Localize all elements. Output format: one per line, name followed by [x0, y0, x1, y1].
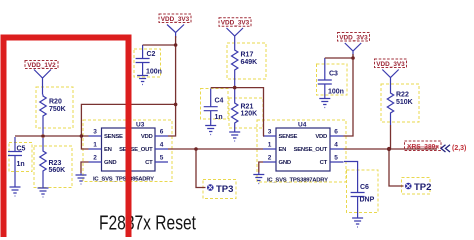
wire: U3 SENSE_OUT to U4 EN	[168, 148, 263, 150]
highlight box U3	[83, 120, 172, 182]
ground (C5)	[10, 185, 21, 196]
svg-text:4: 4	[334, 142, 338, 149]
svg-text:CT: CT	[145, 160, 153, 166]
wire: U4 SENSE_OUT output net	[344, 148, 438, 150]
highlight box U4	[257, 120, 346, 182]
resistor R17 649K	[232, 48, 258, 87]
resistor R23 560K	[40, 138, 65, 185]
highlight box R22	[381, 84, 419, 122]
op-amp/supervisor IC U4 TPS3897	[263, 122, 344, 184]
junction: R20/R23/C5 divider node	[41, 134, 45, 138]
wire: U3 GND pin to ground	[81, 162, 89, 173]
wire: VDD_3V3 rail down to U3 VDD pin 6	[168, 36, 176, 136]
svg-text:6: 6	[334, 129, 338, 136]
junction: R17/R21/C4 node	[233, 86, 237, 90]
svg-text:C6: C6	[360, 184, 369, 191]
svg-text:VDD_3V3: VDD_3V3	[376, 61, 405, 68]
svg-text:GND: GND	[279, 160, 291, 166]
ground (U3 GND)	[76, 173, 87, 184]
wire: drop to TP2	[389, 149, 404, 186]
svg-text:2: 2	[268, 155, 272, 162]
svg-text:4: 4	[160, 142, 164, 149]
highlight box R21	[229, 98, 263, 128]
junction: C2 on VDD rail	[174, 43, 178, 47]
highlight box R17	[227, 43, 266, 79]
svg-text:SENSE: SENSE	[104, 134, 123, 140]
svg-text:SENSE_OUT: SENSE_OUT	[119, 147, 153, 153]
wire: R17/R21 node to C4 branch	[211, 87, 235, 89]
highlight box C4	[201, 89, 229, 120]
svg-text:VDD_1V2: VDD_1V2	[27, 62, 56, 69]
junction: R22/TP2 tap on output net	[387, 147, 391, 151]
power port VDD_3V3 (above R17)	[219, 18, 251, 48]
svg-text:SENSE_OUT: SENSE_OUT	[294, 147, 328, 153]
svg-text:R20: R20	[49, 99, 62, 106]
svg-text:(2,3): (2,3)	[452, 145, 466, 152]
svg-text:DNP: DNP	[360, 197, 375, 204]
svg-text:R22: R22	[396, 92, 409, 99]
ground (R21)	[229, 130, 240, 141]
wire: C2 branch to rail	[143, 44, 176, 46]
svg-text:100n: 100n	[328, 88, 344, 95]
wire: VDD_3V3 rail down to U4 VDD pin 6	[344, 54, 354, 136]
svg-text:750K: 750K	[49, 106, 66, 113]
red highlight border frame	[4, 38, 129, 238]
net label XRS_389x (output, active low)	[405, 141, 467, 152]
wire: U4 GND pin to ground	[259, 162, 263, 173]
svg-text:1n: 1n	[17, 161, 25, 168]
ground (U4 GND)	[253, 173, 264, 184]
svg-text:510K: 510K	[396, 99, 413, 106]
capacitor C3 100n	[318, 58, 344, 97]
highlight box R23	[34, 146, 72, 188]
svg-text:3: 3	[268, 129, 272, 136]
highlight box TP2	[402, 178, 431, 195]
svg-text:VDD_3V3: VDD_3V3	[161, 16, 190, 23]
svg-text:XRS_389x: XRS_389x	[407, 144, 439, 151]
wire: node to U3 EN	[81, 136, 88, 149]
resistor R22 510K	[387, 91, 412, 125]
svg-text:IC_SVS_TPS3895ADRY: IC_SVS_TPS3895ADRY	[93, 177, 154, 183]
svg-text:U4: U4	[298, 122, 307, 129]
highlight box C6	[347, 170, 379, 213]
wire: R17/R21 node to U4 SENSE	[235, 88, 264, 136]
junction: TP3 tap on SENSE_OUT net	[194, 147, 198, 151]
junction: divider wire on VDD rail	[174, 103, 178, 107]
svg-text:1: 1	[93, 142, 97, 149]
svg-text:F2837x Reset: F2837x Reset	[99, 213, 196, 235]
ground (C6)	[352, 216, 363, 227]
highlight box TP3	[203, 180, 236, 199]
capacitor C6 DNP	[344, 162, 375, 217]
svg-text:3: 3	[93, 129, 97, 136]
svg-text:VDD: VDD	[141, 134, 153, 140]
highlight box R20	[36, 87, 73, 128]
wire: node up and over to VDD rail	[81, 104, 175, 136]
svg-text:5: 5	[334, 155, 338, 162]
wire: drop to TP3	[196, 149, 206, 188]
test point TP2	[405, 182, 431, 193]
highlight box C5	[9, 143, 32, 172]
capacitor C5 1n	[8, 137, 26, 185]
power port VDD_3V3 (above R22)	[375, 59, 407, 91]
svg-text:C5: C5	[17, 146, 26, 153]
svg-text:1: 1	[268, 142, 272, 149]
wire: divider node row to U3 SENSE	[15, 135, 89, 137]
svg-text:TP3: TP3	[216, 184, 233, 195]
junction: C3 on U4 VDD rail	[351, 56, 355, 60]
svg-text:U3: U3	[136, 122, 145, 129]
power port VDD_3V3 (above C3 / U4 VDD rail)	[338, 33, 370, 57]
svg-text:100n: 100n	[146, 69, 162, 76]
wire: C3 branch to U4 VDD rail	[325, 57, 353, 59]
svg-text:C4: C4	[215, 97, 224, 104]
svg-text:560K: 560K	[49, 167, 66, 174]
svg-text:EN: EN	[279, 147, 287, 153]
svg-text:TP2: TP2	[414, 182, 431, 193]
svg-text:2: 2	[93, 155, 97, 162]
capacitor C4 1n	[204, 89, 224, 124]
op-amp/supervisor IC U3 TPS3895	[89, 122, 169, 183]
ground (C3)	[319, 97, 330, 108]
junction: node A (SENSE/EN tap)	[80, 134, 84, 138]
svg-text:649K: 649K	[241, 59, 258, 66]
svg-text:R17: R17	[241, 52, 254, 59]
svg-text:GND: GND	[104, 160, 116, 166]
svg-text:5: 5	[160, 155, 164, 162]
svg-text:120K: 120K	[241, 111, 258, 118]
svg-text:IC_SVS_TPS3897ADRY: IC_SVS_TPS3897ADRY	[267, 178, 328, 184]
svg-text:R23: R23	[49, 160, 62, 167]
svg-text:VDD_3V3: VDD_3V3	[221, 20, 250, 27]
power port VDD_1V2	[25, 61, 58, 95]
svg-text:6: 6	[160, 129, 164, 136]
resistor R20 750K	[40, 95, 66, 135]
highlight box C3	[317, 64, 348, 95]
svg-text:1n: 1n	[215, 114, 223, 121]
svg-text:VDD: VDD	[315, 134, 327, 140]
highlight box C2	[134, 49, 161, 77]
svg-text:R21: R21	[241, 104, 254, 111]
test point TP3	[207, 184, 233, 195]
svg-text:SENSE: SENSE	[279, 134, 298, 140]
resistor R21 120K	[232, 89, 258, 130]
ground (C2)	[137, 74, 148, 85]
svg-text:CT: CT	[320, 160, 328, 166]
ground (R23)	[38, 185, 49, 197]
svg-text:VDD_3V3: VDD_3V3	[339, 34, 368, 41]
power port VDD_3V3 (above C2 / U3 VDD rail)	[159, 14, 191, 38]
svg-text:C3: C3	[329, 71, 338, 78]
svg-text:EN: EN	[104, 147, 112, 153]
ground (C4)	[205, 124, 216, 135]
svg-text:C2: C2	[147, 51, 156, 58]
capacitor C2 100n	[136, 45, 162, 76]
wire: R22 lower stem to output net	[390, 125, 392, 149]
